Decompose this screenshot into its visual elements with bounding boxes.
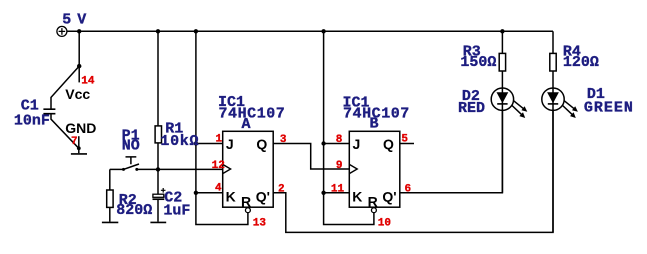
svg-text:10: 10 xyxy=(378,218,391,230)
svg-text:V: V xyxy=(77,12,86,29)
svg-text:10kΩ: 10kΩ xyxy=(160,133,199,150)
svg-text:820Ω: 820Ω xyxy=(116,202,152,219)
svg-text:B: B xyxy=(370,116,379,133)
svg-text:3: 3 xyxy=(280,134,287,146)
svg-text:74HC107: 74HC107 xyxy=(219,105,286,122)
svg-text:J: J xyxy=(226,136,234,152)
svg-text:10nF: 10nF xyxy=(14,112,50,129)
svg-text:K: K xyxy=(352,189,362,205)
svg-text:6: 6 xyxy=(405,184,412,196)
svg-text:A: A xyxy=(242,116,251,133)
svg-text:9: 9 xyxy=(336,160,343,172)
svg-text:K: K xyxy=(226,189,236,205)
svg-text:NO: NO xyxy=(122,137,140,154)
svg-text:GREEN: GREEN xyxy=(584,100,634,117)
svg-text:5: 5 xyxy=(62,12,71,29)
svg-text:120Ω: 120Ω xyxy=(563,54,599,71)
svg-text:Q': Q' xyxy=(382,189,396,205)
svg-text:Vcc: Vcc xyxy=(65,86,90,102)
svg-text:150Ω: 150Ω xyxy=(460,54,496,71)
svg-text:7: 7 xyxy=(71,136,78,148)
svg-text:Q: Q xyxy=(256,136,267,152)
svg-text:12: 12 xyxy=(212,160,225,172)
svg-text:1uF: 1uF xyxy=(163,202,190,219)
svg-text:1: 1 xyxy=(216,134,223,146)
svg-text:GND: GND xyxy=(65,120,96,136)
svg-text:8: 8 xyxy=(336,134,343,146)
svg-text:5: 5 xyxy=(401,134,408,146)
svg-text:J: J xyxy=(353,136,361,152)
svg-text:13: 13 xyxy=(253,218,267,230)
svg-text:2: 2 xyxy=(278,184,285,196)
svg-text:14: 14 xyxy=(81,76,95,88)
svg-text:11: 11 xyxy=(331,184,345,196)
svg-text:4: 4 xyxy=(215,182,222,194)
svg-text:R: R xyxy=(241,193,251,209)
svg-text:Q': Q' xyxy=(256,189,270,205)
svg-text:Q: Q xyxy=(383,136,394,152)
svg-text:R: R xyxy=(368,193,378,209)
svg-text:RED: RED xyxy=(458,100,485,117)
